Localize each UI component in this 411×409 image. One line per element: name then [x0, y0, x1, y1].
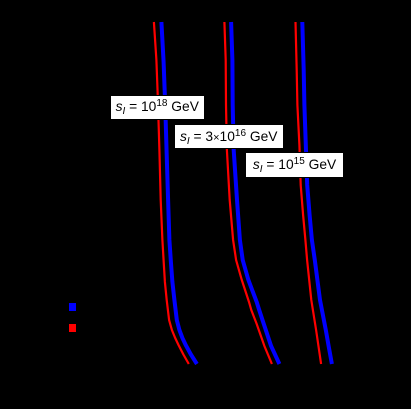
contour pair 2 blue curve (s_I = 3x10^16 GeV)	[231, 22, 279, 364]
legend marker blue square	[69, 303, 76, 311]
contour pair 3 blue curve (s_I = 10^15 GeV)	[302, 22, 332, 364]
label box s_I = 10^15 GeV	[245, 152, 344, 178]
contour pair 1 blue curve (s_I = 10^18 GeV, new prediction)	[161, 22, 197, 364]
contour pair 3 red curve (s_I = 10^15 GeV)	[296, 22, 322, 364]
contour pair 2 red curve (s_I = 3x10^16 GeV)	[224, 22, 272, 364]
label box s_I = 10^18 GeV	[110, 95, 205, 120]
label box s_I = 3x10^16 GeV	[174, 124, 284, 149]
contour pair 1 red curve (s_I = 10^18 GeV, old prediction)	[154, 22, 189, 364]
legend marker red square	[69, 324, 76, 332]
